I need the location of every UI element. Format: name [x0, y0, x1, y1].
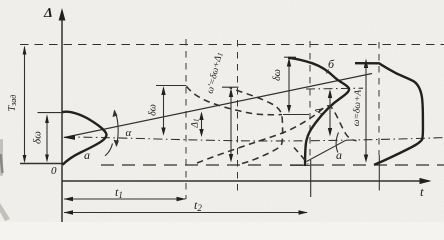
- svg-text:t: t: [420, 184, 424, 199]
- svg-text:A: A: [314, 107, 325, 115]
- svg-text:α: α: [126, 127, 132, 139]
- svg-text:Δ1: Δ1: [191, 118, 201, 128]
- svg-text:Δ: Δ: [43, 6, 53, 21]
- svg-text:δω: δω: [32, 131, 44, 144]
- svg-text:Тзад: Тзад: [7, 95, 18, 112]
- svg-text:б: б: [328, 57, 335, 71]
- svg-text:a: a: [84, 148, 90, 162]
- svg-text:δω: δω: [272, 69, 283, 81]
- svg-text:0: 0: [51, 165, 57, 177]
- svg-text:ω=δω+A: ω=δω+A: [352, 89, 364, 126]
- svg-text:δω: δω: [147, 104, 158, 116]
- svg-text:a: a: [336, 148, 342, 162]
